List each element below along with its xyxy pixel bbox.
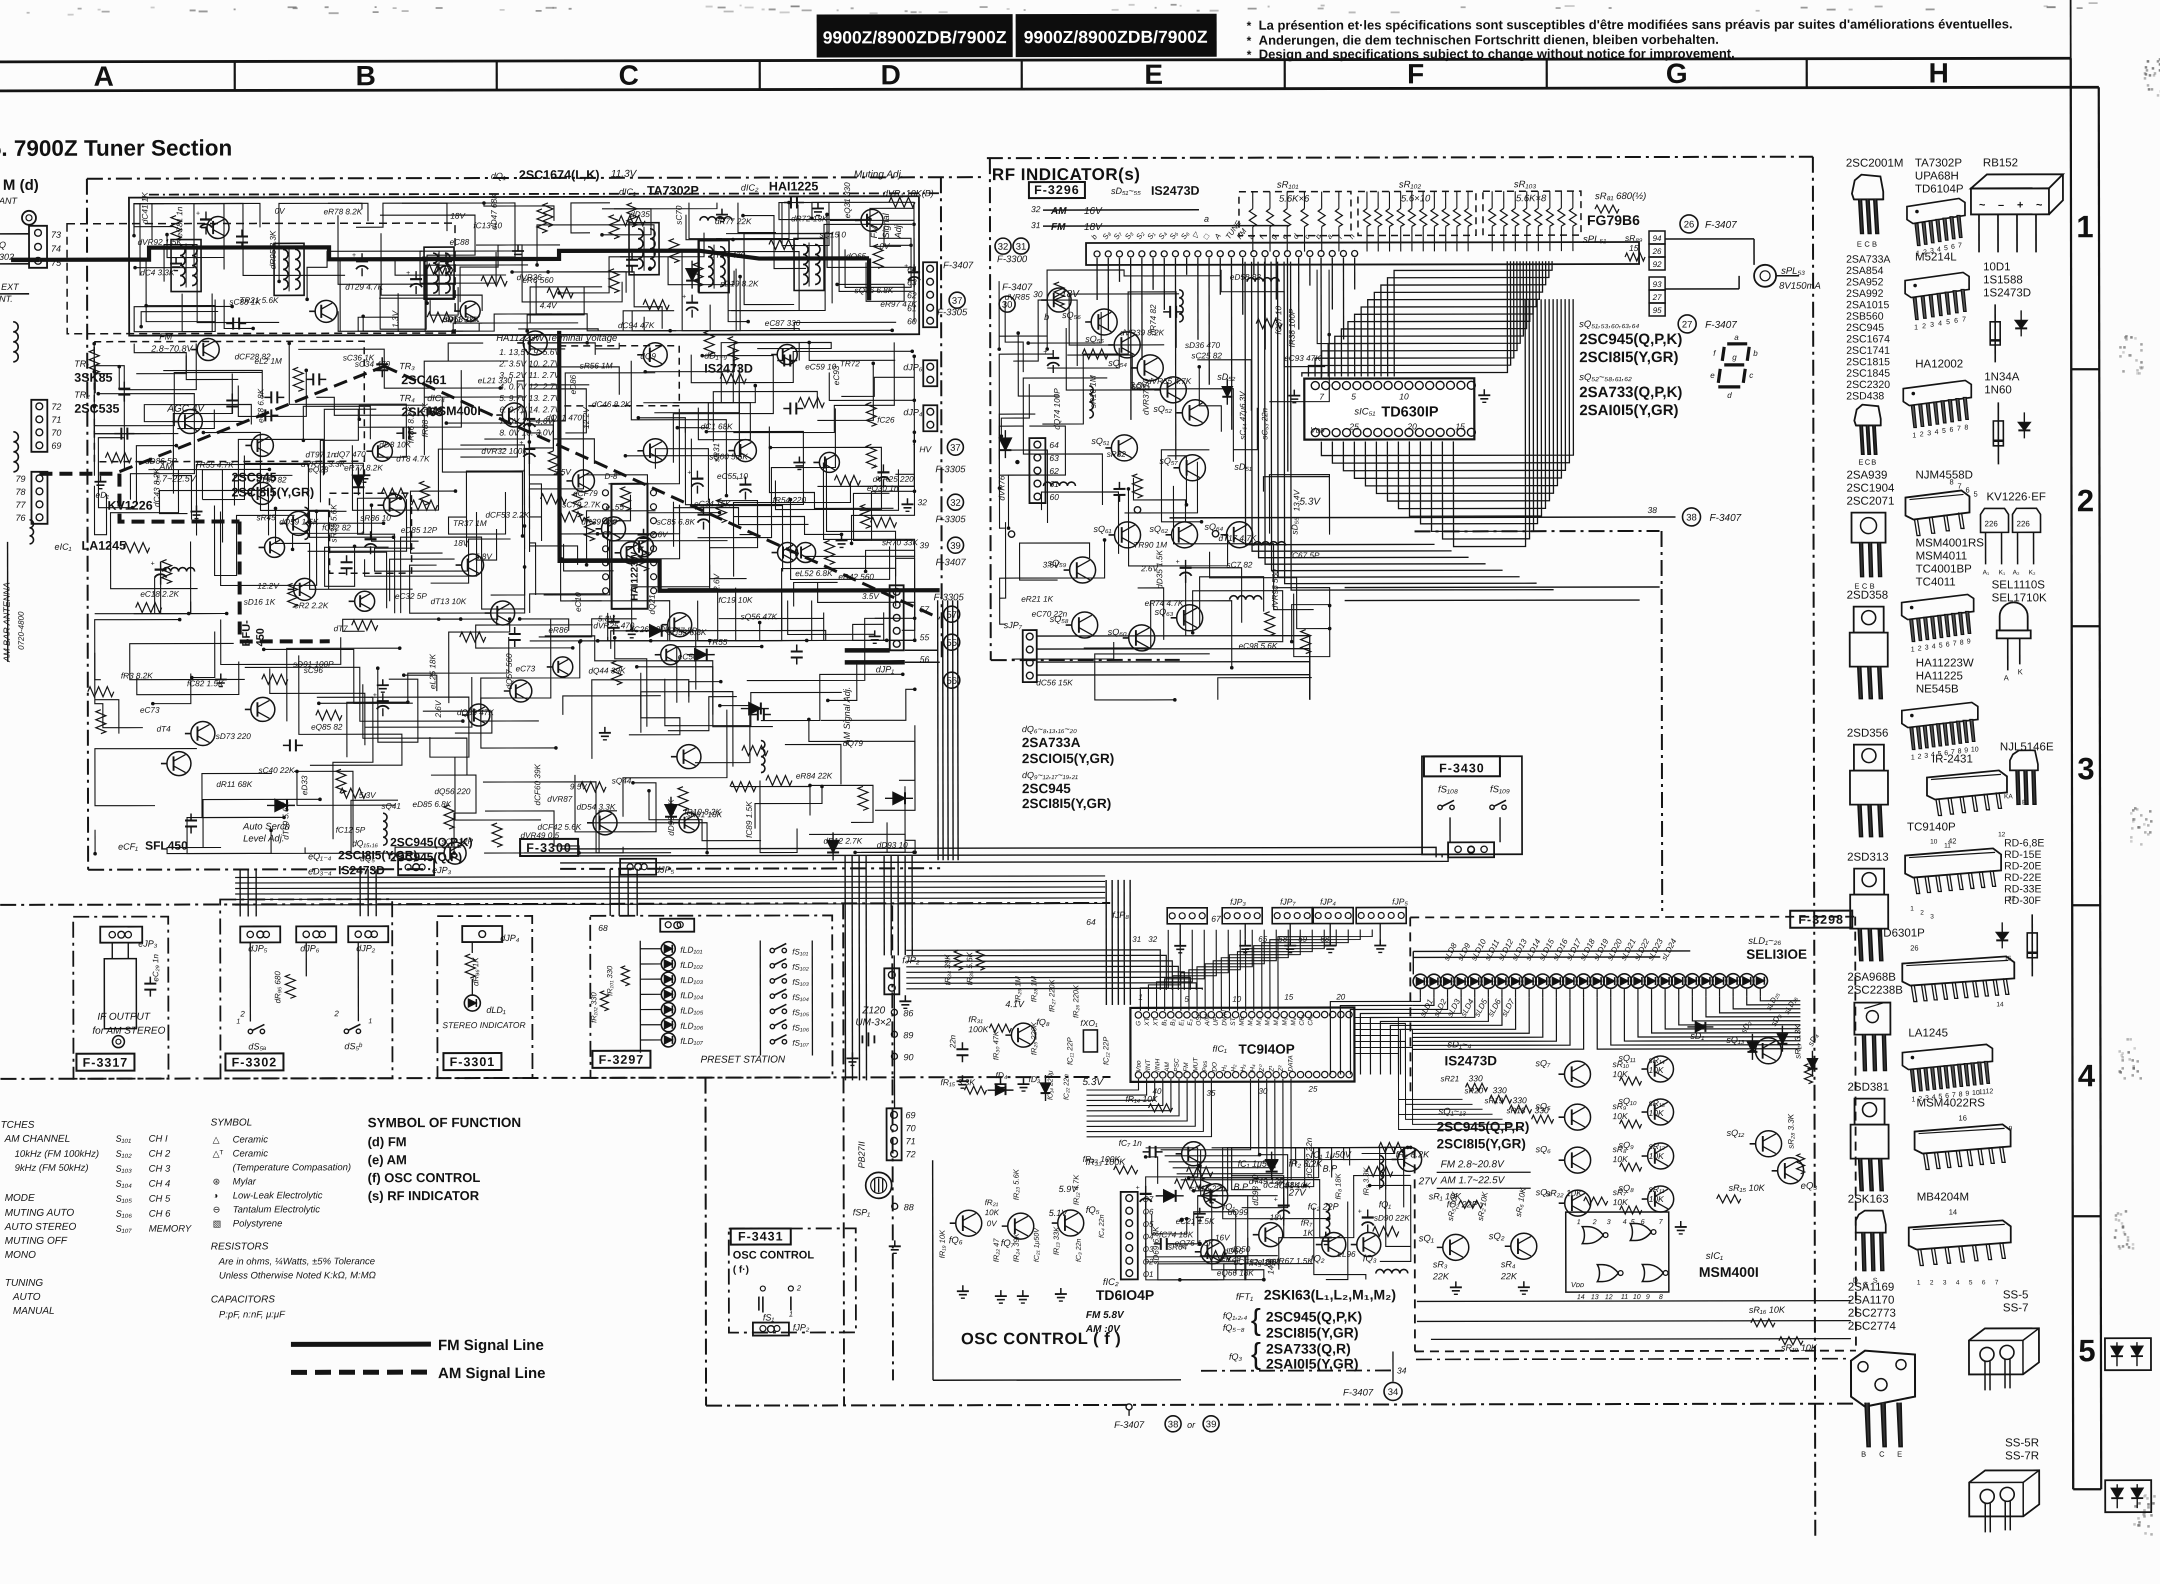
svg-text:27: 27 — [1682, 319, 1693, 330]
svg-text:TD630IP: TD630IP — [1381, 404, 1439, 420]
svg-text:eD33: eD33 — [300, 775, 309, 795]
svg-text:TR55: TR55 — [707, 638, 727, 647]
svg-text:sC36 1K: sC36 1K — [343, 353, 375, 362]
svg-text:92: 92 — [1653, 260, 1662, 269]
svg-text:F-3430: F-3430 — [1439, 761, 1485, 775]
svg-text:CH 2: CH 2 — [149, 1149, 171, 1160]
svg-text:69: 69 — [906, 1110, 916, 1120]
svg-text:70: 70 — [51, 428, 61, 438]
svg-text:2SA968B: 2SA968B — [1847, 972, 1896, 984]
svg-text:Ceramic: Ceramic — [233, 1148, 269, 1159]
svg-text:2SCI8I5(Y,GR): 2SCI8I5(Y,GR) — [1437, 1136, 1526, 1151]
svg-text:dQ57 560: dQ57 560 — [505, 653, 514, 689]
svg-text:F: F — [1407, 58, 1424, 89]
svg-text:10K: 10K — [1613, 1111, 1628, 1121]
svg-text:10D1: 10D1 — [1983, 261, 2011, 273]
svg-text:eD42 560: eD42 560 — [838, 572, 874, 581]
svg-text:fR₁₀₁ 330: fR₁₀₁ 330 — [605, 965, 614, 996]
svg-text:fS₁₀₄: fS₁₀₄ — [792, 993, 809, 1002]
svg-text:H₁: H₁ — [1221, 1065, 1228, 1072]
svg-text:dD47 68K: dD47 68K — [490, 193, 499, 230]
svg-text:dD35: dD35 — [630, 210, 650, 219]
svg-text:M₅: M₅ — [1282, 1017, 1289, 1025]
svg-text:5: 5 — [1631, 1219, 1635, 1226]
svg-text:sQ36 6.8K: sQ36 6.8K — [855, 286, 894, 295]
svg-text:sR₂₂ 10K: sR₂₂ 10K — [1546, 1188, 1583, 1198]
svg-text:sQ₂: sQ₂ — [1489, 1231, 1505, 1242]
svg-text:OSC: OSC — [1196, 1011, 1203, 1025]
svg-text:fJP₃: fJP₃ — [1230, 897, 1246, 907]
svg-text:NJL5146E: NJL5146E — [2000, 741, 2054, 753]
svg-text:IF OUTPUT: IF OUTPUT — [97, 1012, 151, 1023]
svg-text:HA11225: HA11225 — [1916, 670, 1963, 682]
svg-text:dVR76: dVR76 — [997, 475, 1006, 500]
svg-text:dT29 4.7K: dT29 4.7K — [345, 283, 383, 292]
svg-text:0V: 0V — [987, 1219, 997, 1228]
svg-text:sQ₆: sQ₆ — [1536, 1144, 1552, 1154]
svg-text:sD₅₁: sD₅₁ — [1234, 462, 1252, 472]
svg-text:XT: XT — [1153, 1017, 1160, 1027]
svg-text:2SA733A: 2SA733A — [1846, 254, 1890, 266]
svg-text:/INH: /INH — [1154, 1059, 1161, 1073]
svg-text:13: 13 — [1591, 1294, 1599, 1301]
svg-text:4: 4 — [1956, 1279, 1960, 1286]
svg-text:UP: UP — [1213, 1016, 1220, 1026]
svg-text:62: 62 — [907, 290, 917, 300]
svg-text:or: or — [1187, 1420, 1196, 1430]
svg-text:c: c — [1749, 371, 1753, 380]
svg-text:2: 2 — [2077, 483, 2094, 518]
svg-text:6: 6 — [1965, 485, 1969, 494]
svg-text:sQ₅₁,₅₃,₆₀,₆₃,₆₄: sQ₅₁,₅₃,₆₀,₆₃,₆₄ — [1579, 319, 1639, 330]
svg-text:EXT: EXT — [1, 282, 20, 292]
svg-text:fQ₂: fQ₂ — [1311, 1254, 1325, 1265]
svg-text:F-3298: F-3298 — [1798, 913, 1844, 927]
svg-text:DATA: DATA — [1287, 1055, 1294, 1071]
svg-text:2: 2 — [1918, 754, 1922, 761]
svg-text:4: 4 — [1935, 429, 1939, 436]
svg-text:15: 15 — [1455, 421, 1465, 431]
svg-text:eC8 6.8K: eC8 6.8K — [256, 388, 265, 423]
svg-text:22n: 22n — [948, 1034, 957, 1049]
svg-text:TC4001BP: TC4001BP — [1916, 563, 1973, 575]
svg-text:fC₂ 22P: fC₂ 22P — [1308, 1202, 1339, 1212]
svg-text:CAPACITORS: CAPACITORS — [211, 1294, 275, 1305]
svg-text:MUTING AUTO: MUTING AUTO — [5, 1208, 75, 1219]
svg-text:sR₈₉: sR₈₉ — [1625, 233, 1643, 243]
svg-text:fC₂₁ 1μ50V: fC₂₁ 1μ50V — [1034, 1227, 1041, 1262]
svg-text:20: 20 — [1406, 421, 1417, 431]
svg-text:94: 94 — [1653, 234, 1662, 243]
svg-text:fJP₈: fJP₈ — [1112, 910, 1129, 920]
svg-text:FM: FM — [1183, 1062, 1190, 1072]
svg-text:dS₅ₐ: dS₅ₐ — [248, 1041, 266, 1051]
svg-text:sLD₁~₂₆: sLD₁~₂₆ — [1748, 936, 1781, 947]
svg-text:E: E — [1144, 59, 1163, 90]
svg-text:5: 5 — [2078, 1333, 2095, 1368]
svg-text:sR₈: sR₈ — [1613, 1144, 1627, 1154]
svg-text:+: + — [1136, 1185, 1140, 1192]
svg-text:2: 2 — [1930, 1280, 1934, 1287]
svg-text:2SD358: 2SD358 — [1847, 590, 1889, 602]
svg-text:SS-5R: SS-5R — [2005, 1437, 2039, 1449]
svg-text:RD-6,8E: RD-6,8E — [2004, 837, 2044, 849]
svg-text:fJP₄: fJP₄ — [1320, 897, 1336, 907]
svg-text:dQ56 220: dQ56 220 — [434, 787, 470, 796]
svg-text:DO: DO — [1211, 1062, 1218, 1072]
svg-text:SS-5: SS-5 — [2003, 1289, 2029, 1301]
svg-text:dT97 1n: dT97 1n — [305, 450, 336, 459]
svg-text:22: 22 — [2008, 895, 2016, 902]
svg-text:2SCI8I5(Y,GR): 2SCI8I5(Y,GR) — [1022, 796, 1111, 811]
svg-text:eC55 10: eC55 10 — [717, 472, 748, 481]
svg-text:dC4 3.3K: dC4 3.3K — [140, 268, 175, 277]
svg-text:eL2 1M: eL2 1M — [255, 357, 283, 366]
svg-text:fR88 15K: fR88 15K — [421, 402, 430, 437]
svg-text:3: 3 — [1927, 430, 1931, 437]
svg-text:(d) FM: (d) FM — [368, 1134, 407, 1149]
svg-text:6: 6 — [1946, 641, 1950, 648]
svg-text:2SA939: 2SA939 — [1846, 470, 1887, 482]
svg-text:22K: 22K — [1432, 1271, 1450, 1281]
svg-text:F-3407: F-3407 — [936, 557, 967, 568]
svg-text:dR11 68K: dR11 68K — [216, 780, 252, 789]
svg-text:for AM STEREO: for AM STEREO — [92, 1026, 165, 1037]
svg-text:2SK163: 2SK163 — [1848, 1194, 1889, 1206]
svg-text:+: + — [361, 530, 365, 537]
svg-text:1: 1 — [1911, 755, 1915, 762]
svg-text:eC87 330: eC87 330 — [765, 319, 801, 328]
svg-text:S₁₀₇: S₁₀₇ — [116, 1224, 133, 1234]
svg-text:TR90 1M: TR90 1M — [1133, 541, 1167, 550]
svg-text:27V: 27V — [1288, 1188, 1308, 1199]
svg-text:fS₁₀₃: fS₁₀₃ — [792, 978, 809, 987]
svg-text:dR39 470: dR39 470 — [581, 518, 617, 527]
svg-text:34: 34 — [1397, 1365, 1407, 1375]
svg-text:PB27II: PB27II — [857, 1141, 867, 1169]
svg-text:AM 1.7~22.5V: AM 1.7~22.5V — [1440, 1175, 1506, 1186]
svg-text:9: 9 — [1646, 1294, 1650, 1301]
svg-text:AM Signal Adj.: AM Signal Adj. — [842, 687, 852, 747]
svg-text:B.P: B.P — [1323, 1164, 1338, 1174]
svg-text:sR₁ 10K: sR₁ 10K — [1429, 1191, 1462, 1201]
svg-text:2SC1845: 2SC1845 — [1846, 368, 1890, 380]
svg-text:dD86 5P: dD86 5P — [145, 457, 177, 466]
svg-text:5.3V: 5.3V — [1299, 497, 1321, 508]
svg-text:A: A — [2004, 673, 2009, 682]
svg-text:fLD₁₀₆: fLD₁₀₆ — [680, 1021, 704, 1031]
svg-text:fR86 8.2K: fR86 8.2K — [407, 406, 416, 443]
svg-text:TA7302P: TA7302P — [1915, 157, 1962, 169]
svg-text:Vᴅᴅ: Vᴅᴅ — [1571, 1280, 1584, 1289]
svg-text:F-3407: F-3407 — [1705, 220, 1737, 231]
svg-text:g: g — [1732, 353, 1737, 362]
svg-text:{: { — [1251, 1338, 1261, 1371]
svg-text:~: ~ — [2036, 199, 2043, 211]
svg-text:fC19 10K: fC19 10K — [718, 596, 753, 605]
svg-text:fC₁₂ 22P: fC₁₂ 22P — [1101, 1037, 1110, 1065]
svg-text:5.6K×8: 5.6K×8 — [1516, 193, 1547, 204]
svg-text:2SC945(Q,P,R): 2SC945(Q,P,R) — [1437, 1119, 1530, 1134]
svg-text:fR₃₅ 5.6K: fR₃₅ 5.6K — [965, 951, 974, 985]
svg-text:RD-20E: RD-20E — [2004, 860, 2041, 872]
svg-text:fS₁₀₉: fS₁₀₉ — [1490, 784, 1510, 795]
svg-text:FG79B6: FG79B6 — [1587, 212, 1640, 228]
svg-text:H: H — [1929, 57, 1949, 88]
svg-text:MB4204M: MB4204M — [1917, 1191, 1969, 1203]
svg-text:RD-22E: RD-22E — [2004, 872, 2041, 884]
svg-text:dVR25 470: dVR25 470 — [593, 621, 634, 630]
svg-text:a: a — [1204, 214, 1209, 224]
svg-text:fC89 1.5K: fC89 1.5K — [745, 801, 754, 838]
svg-text:+: + — [1274, 1197, 1278, 1204]
svg-text:eC₂₉ 1n: eC₂₉ 1n — [151, 953, 160, 981]
svg-text:2: 2 — [1918, 646, 1922, 653]
svg-text:4.4V: 4.4V — [540, 301, 558, 310]
svg-text:89: 89 — [903, 1030, 913, 1040]
svg-text:32: 32 — [917, 497, 927, 507]
svg-text:+: + — [1176, 559, 1180, 566]
svg-text:M₆: M₆ — [1290, 1017, 1297, 1025]
svg-text:Unless Otherwise Noted K:kΩ, M: Unless Otherwise Noted K:kΩ, M:MΩ — [219, 1270, 376, 1281]
svg-text:77: 77 — [15, 500, 26, 510]
svg-text:△: △ — [213, 1135, 220, 1145]
svg-text:68: 68 — [598, 923, 608, 933]
svg-text:12.2V: 12.2V — [582, 406, 591, 429]
svg-text:4: 4 — [1938, 320, 1942, 327]
svg-text:A₁: A₁ — [1983, 569, 1990, 576]
svg-text:63: 63 — [907, 277, 917, 287]
svg-text:dVR32 100K: dVR32 100K — [481, 447, 528, 456]
svg-text:dC41 1K: dC41 1K — [141, 192, 150, 224]
svg-text:fC₁ 1μ50V: fC₁ 1μ50V — [1238, 1159, 1279, 1169]
svg-text:IR-2431: IR-2431 — [1932, 753, 1973, 765]
svg-text:15: 15 — [1284, 993, 1293, 1002]
svg-text:dT17 4.7K: dT17 4.7K — [1219, 534, 1257, 543]
svg-text:1: 1 — [1577, 1219, 1581, 1226]
svg-text:SELI3IOE: SELI3IOE — [1746, 947, 1807, 962]
svg-text:38: 38 — [1168, 1419, 1179, 1430]
svg-text:B: B — [1861, 1450, 1866, 1459]
svg-text:PRESET STATION: PRESET STATION — [700, 1055, 785, 1066]
svg-text:9900Z/8900ZDB/7900Z: 9900Z/8900ZDB/7900Z — [823, 27, 1007, 47]
svg-text:eR6 560: eR6 560 — [522, 276, 553, 285]
svg-text:fC82 1.5K: fC82 1.5K — [187, 679, 224, 688]
svg-text:fR₃₄ 39K: fR₃₄ 39K — [943, 954, 952, 986]
svg-text:63: 63 — [1049, 453, 1059, 463]
svg-text:4: 4 — [1623, 1219, 1627, 1226]
svg-text:73: 73 — [51, 230, 61, 240]
svg-text:8: 8 — [1960, 639, 1964, 646]
svg-text:dLD₁: dLD₁ — [486, 1005, 506, 1015]
svg-text:▧: ▧ — [213, 1218, 222, 1228]
svg-text:eC56: eC56 — [678, 652, 698, 661]
svg-text:76: 76 — [15, 513, 25, 523]
svg-text:dQ44 39K: dQ44 39K — [588, 666, 625, 675]
svg-text:sR₁₀: sR₁₀ — [1612, 1059, 1629, 1069]
svg-text:32: 32 — [1148, 935, 1157, 944]
svg-text:sC7 12P: sC7 12P — [442, 837, 474, 846]
svg-text:+: + — [406, 270, 410, 277]
svg-text:1: 1 — [1912, 433, 1916, 440]
svg-text:TD6301P: TD6301P — [1876, 928, 1925, 940]
svg-text:fQ₁: fQ₁ — [1379, 1199, 1392, 1209]
svg-text:fR₁₂ 4.7K: fR₁₂ 4.7K — [1072, 1174, 1081, 1205]
svg-text:AM: AM — [1164, 1062, 1171, 1073]
svg-text:dQ₁: dQ₁ — [491, 171, 506, 181]
svg-text:fJP₂: fJP₂ — [902, 955, 920, 966]
svg-text:14: 14 — [1996, 1001, 2004, 1008]
svg-text:32: 32 — [950, 498, 961, 509]
svg-text:F-3407: F-3407 — [1002, 282, 1033, 293]
svg-text:TR₁: TR₁ — [74, 359, 89, 369]
svg-text:eR86: eR86 — [548, 626, 568, 635]
svg-text:67: 67 — [1211, 914, 1221, 924]
svg-text:sJP₇: sJP₇ — [1004, 620, 1023, 630]
svg-text:IS2473D: IS2473D — [1444, 1053, 1497, 1068]
svg-text:NJM4558D: NJM4558D — [1915, 469, 1973, 481]
svg-text:eL25 18K: eL25 18K — [428, 654, 437, 690]
svg-text:(e) AM: (e) AM — [368, 1152, 407, 1167]
svg-text:0V: 0V — [879, 242, 891, 251]
svg-text:fR₂₁: fR₂₁ — [985, 1198, 999, 1207]
svg-text:9: 9 — [1967, 638, 1971, 645]
svg-text:15: 15 — [1629, 243, 1639, 253]
svg-text:S₁₀₂: S₁₀₂ — [116, 1149, 133, 1159]
svg-text:F-3317: F-3317 — [83, 1056, 129, 1070]
svg-text:LA1245: LA1245 — [1908, 1027, 1948, 1039]
svg-text:fR54 220: fR54 220 — [773, 496, 807, 505]
svg-text:dVR87: dVR87 — [547, 795, 572, 804]
svg-text:eC93 47K: eC93 47K — [1284, 354, 1321, 363]
svg-text:2SC1674(L,K): 2SC1674(L,K) — [519, 168, 600, 182]
svg-text:fS₁₀₇: fS₁₀₇ — [792, 1039, 809, 1048]
svg-text:FM 2.8~20.8V: FM 2.8~20.8V — [1441, 1159, 1505, 1170]
svg-text:AM: AM — [1050, 206, 1067, 217]
svg-text:dR72 18K: dR72 18K — [791, 214, 828, 223]
svg-text:6: 6 — [1954, 318, 1958, 325]
svg-text:18V: 18V — [450, 212, 466, 221]
svg-text:dT49 12P: dT49 12P — [1249, 1177, 1285, 1186]
svg-text:F-3297: F-3297 — [599, 1053, 645, 1067]
svg-text:95: 95 — [1653, 306, 1662, 315]
svg-text:86: 86 — [903, 1008, 913, 1018]
svg-text:eC73: eC73 — [516, 664, 536, 673]
svg-text:CH I: CH I — [149, 1134, 168, 1145]
svg-text:SYMBOL OF FUNCTION: SYMBOL OF FUNCTION — [368, 1115, 522, 1130]
svg-text:dCF60 39K: dCF60 39K — [533, 763, 542, 805]
svg-text:sD68 10K: sD68 10K — [444, 315, 481, 324]
svg-text:fQ₁: fQ₁ — [1223, 1202, 1236, 1212]
svg-text:H₂: H₂ — [1230, 1064, 1237, 1072]
svg-text:Z¹: Z¹ — [1268, 1065, 1275, 1073]
svg-text:eD₁: eD₁ — [95, 490, 109, 500]
svg-text:2SA733A: 2SA733A — [1022, 735, 1081, 750]
svg-text:FM: FM — [159, 332, 173, 342]
svg-text:2: 2 — [1920, 910, 1924, 917]
svg-text:2SC945(Q,P): 2SC945(Q,P) — [390, 850, 462, 864]
svg-text:2SAI0I5(Y,GR): 2SAI0I5(Y,GR) — [1579, 402, 1678, 419]
svg-text:25: 25 — [1348, 422, 1359, 432]
svg-text:8: 8 — [1964, 424, 1968, 431]
svg-text:Tantalum Electrolytic: Tantalum Electrolytic — [233, 1204, 321, 1215]
svg-text:2SA733(Q,R): 2SA733(Q,R) — [1266, 1341, 1351, 1357]
svg-text:{: { — [1251, 1304, 1261, 1337]
svg-text:M₄: M₄ — [1273, 1017, 1280, 1025]
svg-text:6: 6 — [1951, 244, 1955, 251]
svg-text:2.6V: 2.6V — [712, 572, 721, 591]
svg-text:sQ₅₇: sQ₅₇ — [1159, 456, 1178, 466]
svg-text:3: 3 — [1943, 1279, 1947, 1286]
svg-text:Q: Q — [0, 240, 6, 250]
svg-text:8: 8 — [1659, 1294, 1663, 1301]
svg-text:sQ15 0: sQ15 0 — [820, 230, 847, 239]
svg-text:dVR98 560: dVR98 560 — [1271, 569, 1280, 610]
svg-text:Adj.: Adj. — [893, 223, 903, 240]
svg-text:9kHz (FM 50kHz): 9kHz (FM 50kHz) — [15, 1163, 89, 1174]
svg-text:+: + — [1358, 1209, 1362, 1216]
svg-text:B: B — [356, 60, 376, 91]
svg-text:sR45: sR45 — [256, 513, 276, 522]
svg-text:ANT: ANT — [0, 196, 18, 206]
svg-text:sR20: sR20 — [1465, 1086, 1484, 1095]
svg-text:sQ₁~₁₃: sQ₁~₁₃ — [1439, 1106, 1467, 1117]
svg-text:eQ85 82: eQ85 82 — [311, 723, 343, 732]
svg-text:sC85 6.8K: sC85 6.8K — [657, 518, 696, 527]
svg-text:F-3305: F-3305 — [937, 307, 968, 318]
svg-text:12: 12 — [1605, 1294, 1613, 1301]
svg-text:S₁₀₃: S₁₀₃ — [116, 1164, 133, 1174]
svg-text:sR21: sR21 — [1440, 1074, 1459, 1083]
svg-text:sQ₅₂: sQ₅₂ — [1153, 404, 1172, 414]
svg-text:fS₁₀₁: fS₁₀₁ — [792, 947, 808, 956]
svg-text:2SA1170: 2SA1170 — [1848, 1295, 1894, 1307]
svg-text:A/M: A/M — [1204, 1014, 1211, 1027]
svg-text:TR72: TR72 — [840, 359, 860, 368]
svg-text:sQ41: sQ41 — [381, 802, 401, 811]
svg-text:sC7 82: sC7 82 — [1226, 560, 1252, 569]
svg-text:26: 26 — [1910, 944, 1918, 953]
svg-text:sR82: sR82 — [1107, 450, 1127, 459]
svg-text:E: E — [1897, 1450, 1902, 1459]
svg-text:90: 90 — [903, 1052, 913, 1062]
svg-text:S₁₀₄: S₁₀₄ — [116, 1179, 133, 1189]
svg-text:32: 32 — [1031, 204, 1041, 214]
svg-text:1: 1 — [368, 1018, 372, 1025]
svg-text:UPA68H: UPA68H — [1915, 170, 1959, 182]
svg-text:2SD313: 2SD313 — [1847, 852, 1889, 864]
svg-text:1: 1 — [236, 1018, 240, 1025]
svg-text:sR64: sR64 — [1168, 1243, 1188, 1252]
svg-text:sD₁: sD₁ — [1690, 1031, 1704, 1041]
svg-text:fJP₅: fJP₅ — [1392, 896, 1408, 906]
svg-text:fQ₅: fQ₅ — [1086, 1205, 1100, 1216]
svg-text:CH 5: CH 5 — [149, 1194, 171, 1205]
svg-text:3: 3 — [1924, 753, 1928, 760]
svg-text:fR38 100P: fR38 100P — [1288, 308, 1297, 347]
svg-text:dJP₅: dJP₅ — [248, 943, 268, 953]
svg-text:sQ56 47K: sQ56 47K — [741, 612, 778, 621]
svg-text:TC4011: TC4011 — [1916, 576, 1956, 588]
svg-text:2SC1741: 2SC1741 — [1846, 345, 1890, 357]
svg-text:2: 2 — [796, 1283, 802, 1292]
svg-text:71: 71 — [906, 1136, 916, 1146]
svg-text:fS₁₀₆: fS₁₀₆ — [792, 1023, 809, 1032]
svg-text:6: 6 — [1641, 1219, 1645, 1226]
svg-text:sC₅₃ 22n: sC₅₃ 22n — [1260, 407, 1269, 439]
svg-text:2SC945(Q,P,K): 2SC945(Q,P,K) — [1266, 1309, 1362, 1325]
svg-text:fR₉ 3.3K: fR₉ 3.3K — [1362, 1167, 1371, 1196]
